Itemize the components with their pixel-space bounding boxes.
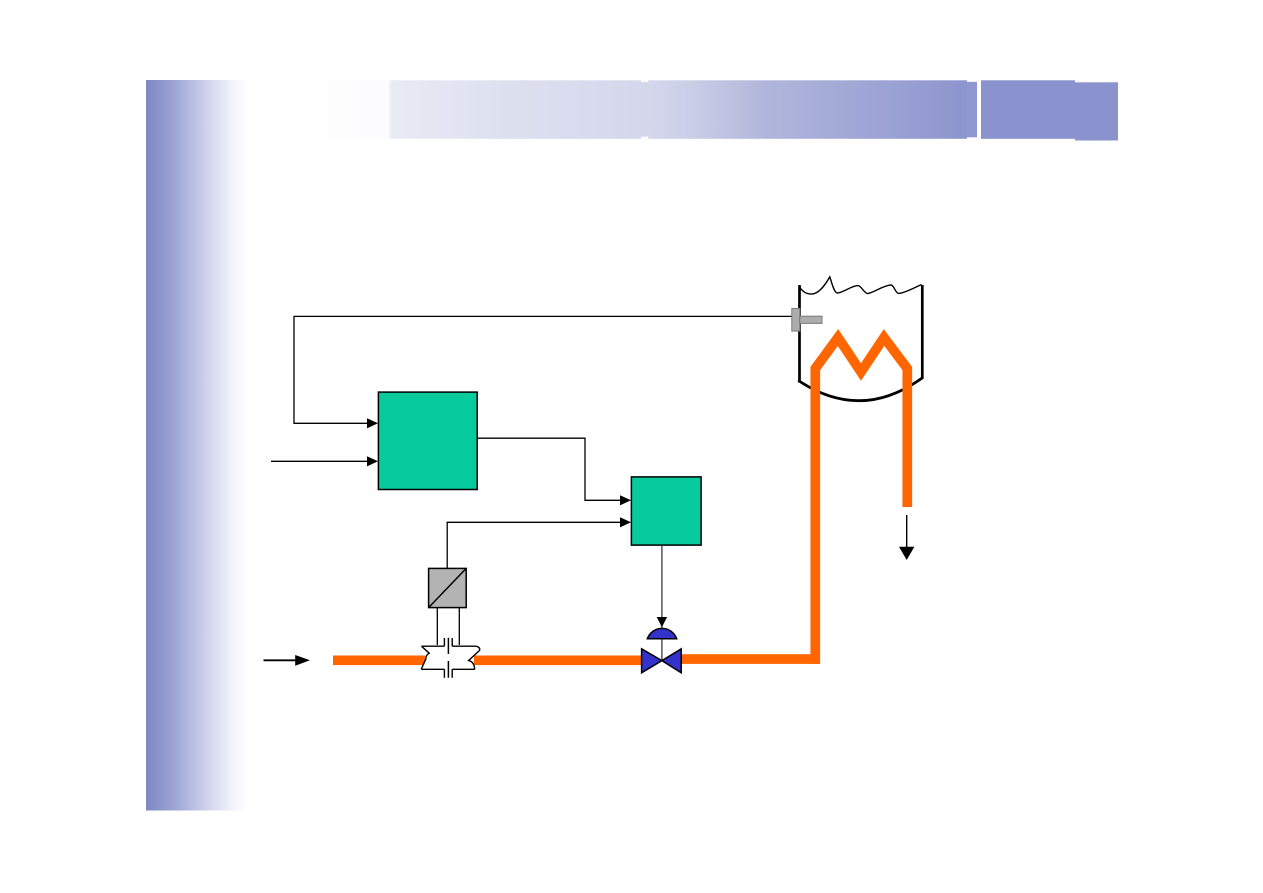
feed inlet arrow: [264, 659, 297, 661]
impulse line left: [436, 608, 438, 645]
temperature sensor horizontal probe: [800, 316, 822, 323]
control valve left triangle: [642, 649, 662, 673]
tank curved bottom: [798, 378, 923, 401]
arrowhead into controller input 2: [367, 456, 378, 466]
arrowhead into controller 2 input 1: [620, 495, 631, 505]
top banner gradient bar: [250, 80, 967, 139]
transducer diagonal: [429, 568, 467, 607]
top banner small step segment: [967, 82, 978, 138]
pipe segment: orifice to valve: [474, 656, 643, 666]
orifice plate lower line: [447, 661, 449, 678]
tank liquid wavy top: [800, 277, 922, 294]
top banner notch lower: [641, 137, 648, 139]
control valve right triangle: [662, 649, 681, 673]
outlet arrow: [906, 515, 908, 548]
tank left wall: [798, 285, 801, 383]
wire: controller 1 output to controller 2: [477, 438, 620, 500]
orifice fitting outline: [421, 638, 480, 678]
arrowhead into controller 2 input 2: [620, 517, 631, 527]
pipe segment: valve to riser corner: [681, 654, 821, 664]
tank right wall: [921, 285, 924, 379]
orifice plate upper line: [447, 638, 449, 654]
top banner solid segment: [981, 80, 1075, 139]
controller block 1: [378, 392, 477, 489]
valve actuator dome: [647, 628, 676, 638]
arrowhead into controller input 1: [367, 418, 378, 428]
wire: flow transducer signal to controller 2: [447, 522, 620, 568]
transducer box: [429, 568, 467, 607]
wire: feedback from sensor to controller (top run): [294, 316, 792, 423]
impulse line right: [458, 608, 460, 645]
wire: controller 2 output stem to valve actuator: [661, 545, 663, 660]
orifice fitting body: [421, 646, 480, 669]
left gradient sidebar: [146, 80, 249, 811]
pipe riser and heating coil: [815, 338, 907, 664]
arrowhead onto actuator: [657, 617, 667, 627]
temperature sensor vertical stub: [792, 309, 800, 332]
top banner notch upper: [641, 80, 648, 82]
controller block 2: [631, 477, 701, 545]
top banner end segment: [1075, 82, 1118, 140]
wire: setpoint input to controller: [271, 460, 368, 462]
pipe segment: inlet to orifice: [333, 656, 425, 666]
